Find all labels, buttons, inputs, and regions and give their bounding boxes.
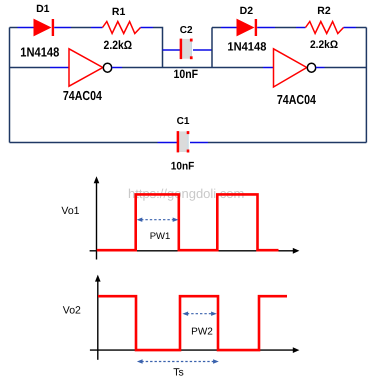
svg-text:2.2kΩ: 2.2kΩ	[310, 39, 338, 51]
wire U2 output to right rail navy	[325, 67, 367, 69]
svg-text:2.2kΩ: 2.2kΩ	[104, 38, 133, 52]
wire into U2 blue	[263, 67, 274, 69]
resistor R1	[103, 22, 141, 34]
wire bottom rail left navy	[10, 142, 158, 144]
wire D2 cathode segment blue	[257, 27, 275, 29]
svg-text:10nF: 10nF	[171, 160, 195, 172]
wire R2 right lead	[344, 27, 357, 29]
wire mid navy segment	[71, 27, 91, 29]
wire R1 to corner	[141, 27, 154, 29]
wire R1 left lead blue	[91, 27, 103, 29]
wire C1 right lead blue	[190, 142, 208, 144]
wire C2 right lead	[193, 49, 212, 51]
capacitor C1	[178, 131, 189, 152]
node Vo1 axis horizontal	[90, 248, 300, 254]
svg-text:1N4148: 1N4148	[227, 39, 266, 53]
capacitor C2	[181, 39, 193, 60]
node Vo2 axis horizontal	[90, 347, 300, 353]
wire U2 output blue	[316, 67, 325, 69]
wire navy segment before R2	[275, 27, 296, 29]
svg-text:C2: C2	[180, 25, 193, 36]
wire top-right corner	[356, 27, 366, 29]
svg-text:R2: R2	[317, 5, 331, 17]
wire D1 cathode blue	[54, 27, 71, 29]
node PW2 arrow	[182, 312, 216, 316]
svg-text:1N4148: 1N4148	[20, 45, 59, 60]
svg-text:PW2: PW2	[191, 326, 213, 337]
svg-text:C1: C1	[177, 116, 190, 127]
wire left vertical rail	[9, 28, 11, 143]
wire C1 left lead blue	[158, 142, 178, 144]
wire input to U1 blue	[50, 67, 69, 69]
wire bottom rail right navy	[208, 142, 366, 144]
wire Vo2 waveform	[98, 296, 287, 350]
wire to D1 anode	[18, 27, 34, 29]
wire right vertical rail	[365, 28, 367, 143]
svg-text:74AC04: 74AC04	[277, 92, 317, 107]
svg-text:PW1: PW1	[150, 231, 171, 242]
svg-text:Ts: Ts	[173, 366, 184, 378]
svg-text:Vo1: Vo1	[61, 205, 79, 217]
svg-text:D2: D2	[240, 5, 254, 17]
wire node B2 vertical	[211, 28, 213, 68]
node Ts arrow	[137, 359, 219, 363]
wire U1 output blue	[112, 67, 122, 69]
wire top-left corner segment	[10, 27, 18, 29]
resistor R2	[306, 22, 344, 34]
node Vo2 axis vertical	[95, 275, 101, 360]
wire to D2 anode	[221, 27, 237, 29]
wire top rail stage 2 start	[212, 27, 221, 29]
node PW1 arrow	[137, 218, 179, 222]
svg-text:74AC04: 74AC04	[63, 88, 103, 103]
op-amp U2 inverter 74AC04	[274, 49, 316, 87]
svg-text:D1: D1	[36, 3, 50, 15]
svg-text:Vo2: Vo2	[63, 305, 81, 317]
svg-text:R1: R1	[112, 6, 126, 18]
wire R2 left lead	[296, 27, 306, 29]
wire Vo1 waveform	[97, 194, 279, 250]
wire U1 output to U2 input navy	[122, 67, 263, 69]
op-amp U1 inverter 74AC04	[69, 49, 112, 86]
diode D2	[237, 19, 256, 37]
wire C2 left lead	[163, 49, 181, 51]
diode D1	[34, 19, 53, 37]
wire corner into node B vertical	[153, 28, 163, 68]
wire input to U1 navy	[10, 67, 51, 69]
node Vo1 axis vertical	[94, 176, 100, 259]
svg-text:10nF: 10nF	[174, 67, 199, 81]
